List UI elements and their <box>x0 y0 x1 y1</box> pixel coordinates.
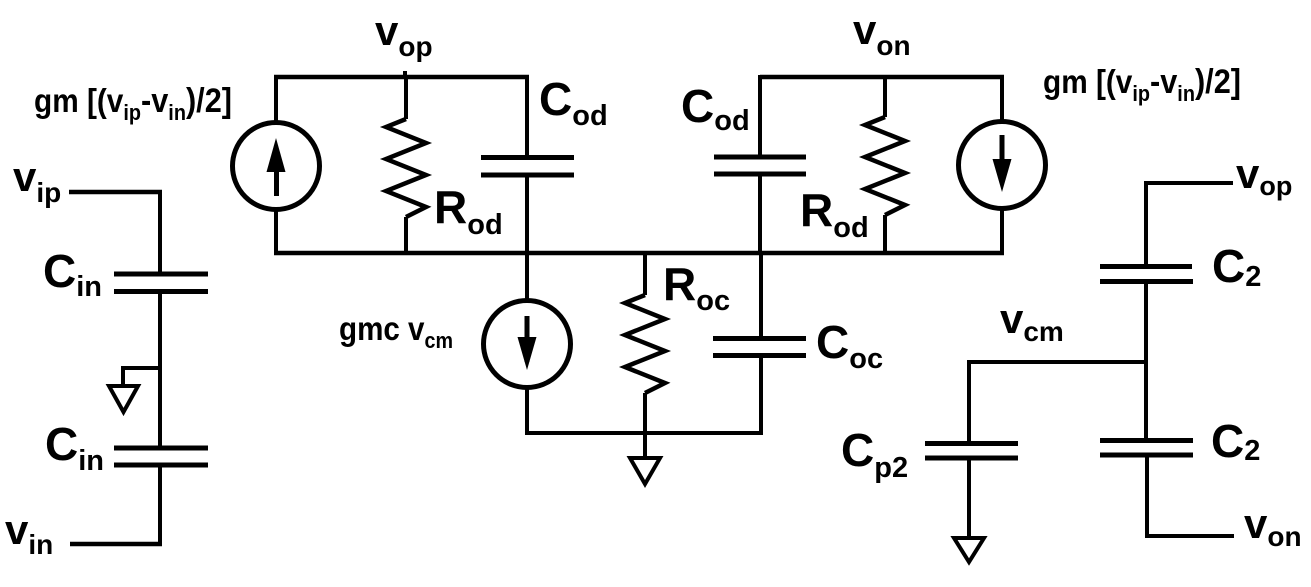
capacitor Coc bottom lead <box>759 358 763 435</box>
ground right open triangle <box>954 538 984 562</box>
wire vop right horizontal <box>1146 181 1233 185</box>
svg-text:Cin: Cin <box>43 245 102 303</box>
capacitor Coc plates <box>713 336 806 358</box>
resistor Roc bottom lead <box>643 393 647 435</box>
wire right vertical upper <box>1144 181 1148 266</box>
current source I2 arrow down <box>993 135 1012 192</box>
svg-text:von: von <box>1244 500 1302 552</box>
wire right vertical middle <box>1144 284 1148 440</box>
svg-text:Cin: Cin <box>45 418 104 477</box>
wire left vertical top <box>158 190 162 272</box>
resistor Rod right top lead <box>883 75 887 117</box>
wire ground stub vertical <box>121 366 125 386</box>
resistor Roc top lead <box>643 253 647 295</box>
wire vcm horizontal <box>969 360 1148 364</box>
capacitor Cp2 plates <box>925 441 1018 461</box>
svg-text:vop: vop <box>375 7 433 62</box>
ground middle open triangle <box>630 458 660 484</box>
current source gmc circle <box>484 301 571 388</box>
wire Cp2 bottom lead <box>967 460 971 538</box>
wire ground stub horizontal <box>123 366 162 370</box>
capacitor Cp2 top lead <box>967 360 971 443</box>
wire left vertical bottom <box>158 467 162 546</box>
svg-text:vin: vin <box>5 506 53 560</box>
wire current source I2 top lead <box>1000 75 1004 123</box>
ground left open triangle <box>109 386 138 412</box>
capacitor Cod right plates <box>714 155 806 177</box>
current source gmc arrow down <box>518 316 537 370</box>
resistor Rod right bottom lead <box>883 215 887 255</box>
wire Roc ground stub <box>643 433 647 458</box>
capacitor Cod right top lead <box>758 75 762 156</box>
svg-text:von: von <box>853 6 911 61</box>
wire current source I2 bottom lead <box>1000 207 1004 255</box>
wire vin horizontal <box>70 542 162 547</box>
wire vop tick <box>403 71 407 79</box>
capacitor C2in plates <box>114 446 208 468</box>
wire top rail right cell <box>760 75 1004 80</box>
svg-text:C2: C2 <box>1212 240 1261 293</box>
wire top rail left cell <box>274 75 529 80</box>
svg-text:vop: vop <box>1236 150 1292 201</box>
svg-text:Coc: Coc <box>816 316 883 375</box>
capacitor Coc top lead <box>759 253 763 337</box>
capacitor C2top plates <box>1100 264 1193 284</box>
svg-text:Cp2: Cp2 <box>841 424 908 484</box>
svg-text:Rod: Rod <box>434 181 503 241</box>
current source I1 circle <box>233 123 320 210</box>
svg-text:vcm: vcm <box>1000 295 1064 347</box>
capacitor Cod right bottom lead <box>758 176 762 255</box>
wire current source I1 top lead <box>274 75 278 124</box>
wire left vertical middle <box>158 294 162 446</box>
wire right vertical lower <box>1145 457 1149 538</box>
svg-text:gmc vcm: gmc vcm <box>339 310 453 353</box>
wire vip horizontal <box>69 190 162 195</box>
resistor Rod left top lead <box>404 75 408 119</box>
svg-text:Roc: Roc <box>663 258 730 317</box>
wire current source I1 bottom lead <box>274 208 278 255</box>
resistor Rod left bottom lead <box>404 217 408 255</box>
wire Cod left bottom lead through rail to gmc <box>525 177 529 302</box>
svg-text:gm [(vip-vin)/2]: gm [(vip-vin)/2] <box>34 82 232 125</box>
wire von right horizontal <box>1145 534 1234 538</box>
capacitor Cod left top lead <box>525 75 529 157</box>
capacitor Cod left plates <box>481 155 574 178</box>
wire gmc bottom horizontal <box>525 431 763 435</box>
wire bottom rail <box>274 251 1004 256</box>
capacitor C1in plates <box>114 272 208 295</box>
svg-text:Cod: Cod <box>681 80 750 137</box>
svg-text:Rod: Rod <box>800 184 869 244</box>
svg-text:vip: vip <box>13 153 61 208</box>
current source I1 arrow up <box>267 138 286 196</box>
svg-text:gm [(vip-vin)/2]: gm [(vip-vin)/2] <box>1043 63 1241 106</box>
resistor Roc zigzag <box>625 295 665 393</box>
current source I2 circle <box>959 122 1046 209</box>
resistor Rod left zigzag <box>386 119 426 217</box>
svg-text:Cod: Cod <box>539 73 608 132</box>
wire gmc bottom lead <box>525 386 529 435</box>
svg-text:C2: C2 <box>1211 415 1260 467</box>
resistor Rod right zigzag <box>865 117 905 215</box>
capacitor C2bot plates <box>1100 438 1193 458</box>
